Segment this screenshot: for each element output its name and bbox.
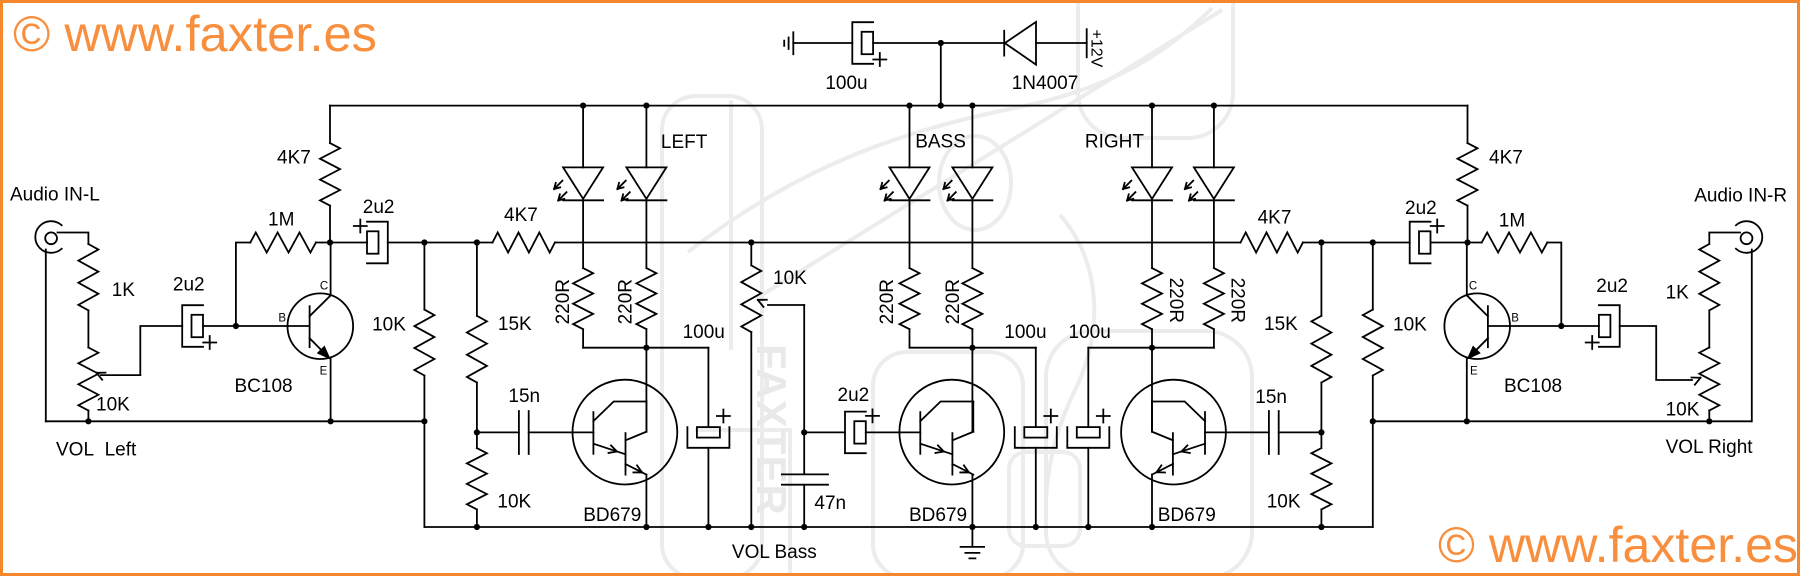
LED D BASS1 xyxy=(890,167,930,200)
wire 220R down LEFT2 xyxy=(645,329,647,348)
wire 1M to node xyxy=(316,242,330,244)
svg-text:E: E xyxy=(320,365,328,377)
svg-text:100u: 100u xyxy=(683,322,725,343)
terminal +12V xyxy=(1086,29,1088,57)
junction left rail / 10K xyxy=(421,418,427,424)
svg-text:100u: 100u xyxy=(1069,322,1111,343)
svg-text:1K: 1K xyxy=(112,280,136,301)
resistor 1M left xyxy=(250,233,316,253)
junction mid rail VOL Bass xyxy=(748,239,754,245)
svg-text:BD679: BD679 xyxy=(909,505,967,526)
node power junction xyxy=(938,40,944,46)
wire right rail xyxy=(1373,420,1751,422)
svg-text:LEFT: LEFT xyxy=(661,132,708,153)
svg-text:220R: 220R xyxy=(943,279,964,324)
capacitor 2u2 left collector node xyxy=(367,222,388,264)
wire base node to transistor xyxy=(236,325,310,327)
capacitor 2u2 right input xyxy=(1599,305,1620,347)
wire LED to 220R RIGHT2 xyxy=(1213,200,1215,268)
capacitor 100u right coupling B xyxy=(1087,348,1089,427)
junction top rail x=972.4 xyxy=(969,103,975,109)
resistor 220R BASS1 xyxy=(900,268,920,329)
transistor Q2 BD679 left xyxy=(573,380,678,485)
svg-text:RIGHT: RIGHT xyxy=(1085,132,1145,153)
resistor 4K7 right vertical xyxy=(1458,143,1478,206)
svg-text:10K: 10K xyxy=(497,492,531,513)
resistor 15K left xyxy=(467,243,487,433)
wire LED to 220R BASS1 xyxy=(909,200,911,268)
wire 220R down RIGHT1 xyxy=(1151,329,1153,348)
LED D BASS2 xyxy=(952,167,992,200)
svg-text:B: B xyxy=(1511,313,1519,325)
svg-text:220R: 220R xyxy=(553,279,574,324)
resistor 220R LEFT2 xyxy=(636,268,656,329)
svg-text:2u2: 2u2 xyxy=(363,197,395,218)
svg-text:15n: 15n xyxy=(1255,387,1287,408)
node collector left xyxy=(327,239,333,245)
wire 15n to node right xyxy=(1279,431,1322,433)
capacitor 2u2 right collector node xyxy=(1410,222,1431,264)
wire collector BD679 left xyxy=(645,348,647,432)
wire C2u2 to base node xyxy=(203,325,236,327)
wire bass collector node to C100u xyxy=(972,347,1035,349)
junction 15K/10K/15n right xyxy=(1318,429,1324,435)
svg-text:10K: 10K xyxy=(1393,315,1427,336)
svg-text:VOL Bass: VOL Bass xyxy=(732,542,817,563)
svg-text:10K: 10K xyxy=(773,268,807,289)
wire BD679 base to 15n right xyxy=(1205,431,1269,433)
ground symbol bass emitter xyxy=(961,527,985,558)
wire power node down to top rail xyxy=(940,43,942,106)
resistor 1K left xyxy=(78,244,98,310)
wire emitter Q1 to left rail xyxy=(330,358,332,422)
junction collector node RIGHT xyxy=(1149,345,1155,351)
svg-text:B: B xyxy=(278,313,286,325)
svg-text:1M: 1M xyxy=(268,210,294,231)
svg-text:100u: 100u xyxy=(825,73,867,94)
junction pot/rail right xyxy=(1706,418,1712,424)
wire top supply rail xyxy=(330,105,1468,107)
svg-text:1N4007: 1N4007 xyxy=(1012,73,1079,94)
svg-text:1M: 1M xyxy=(1499,211,1525,232)
resistor 220R RIGHT1 xyxy=(1142,268,1162,329)
wire LED to 220R LEFT1 xyxy=(582,200,584,268)
svg-text:220R: 220R xyxy=(1165,278,1186,323)
wire ground to C 100u xyxy=(793,42,852,44)
wire base right xyxy=(1488,325,1561,327)
wire D1 anode to +12V terminal xyxy=(1036,42,1087,44)
capacitor 2u2 bass xyxy=(845,412,866,454)
junction bottom rail emitter left xyxy=(643,524,649,530)
svg-text:47n: 47n xyxy=(814,493,846,514)
junction emitter/rail right xyxy=(1464,418,1470,424)
wire jack to R 1K xyxy=(58,233,89,245)
svg-text:VOL Right: VOL Right xyxy=(1666,437,1754,458)
junction mid rail 15K right xyxy=(1318,239,1324,245)
potentiometer VOL Bass 10K xyxy=(741,243,761,333)
LED DLEFT2 xyxy=(626,167,666,200)
svg-text:10K: 10K xyxy=(372,315,406,336)
potentiometer VOL Left 10K xyxy=(78,348,98,411)
wire pot bottom to rail right xyxy=(1708,411,1710,422)
wire rail to LED2 LEFT xyxy=(645,106,647,168)
wire mid rail to 15K right xyxy=(1303,242,1322,244)
wire top rail corner down to 4K7 right xyxy=(1467,106,1469,144)
wire mid rail to 15K xyxy=(424,242,477,244)
resistor 10K right bias xyxy=(1363,243,1383,422)
resistor 10K left bias xyxy=(414,243,434,422)
wire collector Q1 xyxy=(330,243,332,296)
wire jack ground down xyxy=(45,250,47,422)
junction mid rail 10K left xyxy=(421,239,427,245)
capacitor 47n xyxy=(782,432,828,527)
svg-text:15K: 15K xyxy=(498,314,532,335)
svg-text:BC108: BC108 xyxy=(1504,376,1562,397)
svg-text:FAXTER: FAXTER xyxy=(748,344,795,516)
wire rail to LED BASS1 xyxy=(909,106,911,168)
wire LED to 220R BASS2 xyxy=(971,200,973,268)
junction bottom rail 100u bass A xyxy=(1033,524,1039,530)
svg-text:2u2: 2u2 xyxy=(1405,198,1437,219)
wire C2u2 to node right xyxy=(1431,242,1468,244)
svg-text:4K7: 4K7 xyxy=(277,148,311,169)
junction bottom rail 47n xyxy=(801,524,807,530)
wire base node to C2u2 right input xyxy=(1561,325,1599,327)
wire C100u to node xyxy=(873,42,941,44)
wire 100u B to RIGHT collector node xyxy=(1088,347,1152,349)
wire 220R down BASS1 xyxy=(909,329,911,348)
wire LED to 220R RIGHT1 xyxy=(1151,200,1153,268)
capacitor 100u (power smoothing) xyxy=(852,22,873,64)
wire emitter BD679 bass to rail xyxy=(971,475,973,527)
svg-text:100u: 100u xyxy=(1004,322,1046,343)
wire C2u2 to mid rail xyxy=(388,242,425,244)
wire collector node to C100u left xyxy=(646,347,708,349)
svg-text:BD679: BD679 xyxy=(1158,505,1216,526)
wire 15n to BD679 base xyxy=(529,431,594,433)
svg-text:15n: 15n xyxy=(508,386,540,407)
ground (power supply negative) xyxy=(784,32,793,54)
junction bottom rail emitter bass xyxy=(969,524,975,530)
decorative watermark (not labelled further) xyxy=(662,0,1252,576)
node collector right xyxy=(1464,239,1470,245)
junction top rail x=1152.0 xyxy=(1149,103,1155,109)
wire bottom rail xyxy=(424,526,1372,528)
svg-text:2u2: 2u2 xyxy=(1596,276,1628,297)
transistor Q1 BC108 xyxy=(288,293,354,359)
svg-text:220R: 220R xyxy=(615,279,636,324)
svg-text:10K: 10K xyxy=(1267,492,1301,513)
resistor 220R BASS2 xyxy=(962,268,982,329)
svg-text:BASS: BASS xyxy=(915,132,966,153)
wire 220R down BASS2 xyxy=(971,329,973,348)
junction emitter/rail left xyxy=(328,418,334,424)
resistor 4K7 left vertical xyxy=(320,143,340,206)
wire wiper to C 2u2 xyxy=(140,326,182,375)
wire emitter BD679 left to bottom rail xyxy=(645,475,647,527)
svg-text:4K7: 4K7 xyxy=(1258,208,1292,229)
svg-text:2u2: 2u2 xyxy=(173,275,205,296)
wire 4K7 to node xyxy=(329,206,331,243)
junction top rail x=583.1 xyxy=(580,103,586,109)
junction top rail x=909.5 xyxy=(906,103,912,109)
wire rail to LED BASS2 xyxy=(971,106,973,168)
transistor Q4 BD679 right (mirrored) xyxy=(1121,380,1226,485)
svg-text:C: C xyxy=(1469,280,1477,292)
junction bottom rail 100u B xyxy=(1085,524,1091,530)
junction pot/rail left xyxy=(85,418,91,424)
svg-text:Audio IN-L: Audio IN-L xyxy=(10,185,100,206)
svg-text:Audio IN-R: Audio IN-R xyxy=(1694,186,1787,207)
resistor 220R LEFT1 xyxy=(573,268,593,329)
svg-text:© www.faxter.es: © www.faxter.es xyxy=(13,6,377,62)
diode 1N4007 xyxy=(1004,22,1036,65)
svg-text:220R: 220R xyxy=(877,279,898,324)
potentiometer VOL Right 10K xyxy=(1699,348,1719,411)
wire LED to 220R LEFT2 xyxy=(645,200,647,268)
wire mid rail to 4K7 xyxy=(477,242,493,244)
svg-text:4K7: 4K7 xyxy=(504,205,538,226)
wire emitter right to rail xyxy=(1466,358,1468,422)
transistor Q3 BD679 bass xyxy=(899,380,1004,485)
wire 220R joiner RIGHT xyxy=(1152,347,1214,349)
wire C2u2 to BD679 base xyxy=(866,431,921,433)
resistor 15K right xyxy=(1311,243,1331,433)
resistor 4K7 right horizontal xyxy=(751,233,1303,253)
wire left rail down to bottom rail xyxy=(423,421,425,527)
wire 220R down LEFT1 xyxy=(582,329,584,348)
wire 220R joiner BASS xyxy=(910,347,973,349)
junction collector node LEFT xyxy=(643,345,649,351)
svg-text:VOL Left: VOL Left xyxy=(56,440,137,461)
wire base node up to R 1M xyxy=(236,243,250,327)
wire mid rail left-of-center xyxy=(555,242,751,244)
junction mid rail 10K right xyxy=(1370,239,1376,245)
LED D RIGHT1 xyxy=(1132,167,1172,200)
wire node to C2u2 xyxy=(330,242,367,244)
wire rail to LED1 LEFT xyxy=(582,106,584,168)
wire 1K to pot xyxy=(87,310,89,347)
resistor 1M right xyxy=(1468,233,1548,253)
wire jack to R 1K right xyxy=(1709,233,1740,245)
wire VOL Bass bottom to rail xyxy=(750,332,752,527)
wire bass node to C2u2 xyxy=(804,431,845,433)
node base left xyxy=(233,323,239,329)
transistor Q5 BC108 right (mirrored) xyxy=(1444,293,1510,359)
junction top rail x=1213.9 xyxy=(1211,103,1217,109)
junction bottom rail 10K left xyxy=(474,524,480,530)
resistor 10K left lower xyxy=(467,432,487,527)
capacitor 15n right xyxy=(1269,411,1279,454)
svg-text:BC108: BC108 xyxy=(235,376,293,397)
wire mid rail to 10K right xyxy=(1321,242,1372,244)
capacitor 2u2 input left xyxy=(182,305,203,347)
wire rail to LED RIGHT1 xyxy=(1151,106,1153,168)
wire collector BD679 bass xyxy=(971,348,973,432)
junction bottom rail VOL Bass xyxy=(748,524,754,530)
junction 15K/10K/15n left xyxy=(474,429,480,435)
wire collector right xyxy=(1466,243,1468,296)
svg-text:C: C xyxy=(320,280,328,292)
junction top rail x=940.8 xyxy=(938,103,944,109)
capacitor 100u left output xyxy=(707,348,709,427)
capacitor 100u bass output A xyxy=(1035,348,1037,427)
wire rail to LED RIGHT2 xyxy=(1213,106,1215,168)
svg-text:220R: 220R xyxy=(1227,278,1248,323)
junction bottom rail emitter right xyxy=(1149,524,1155,530)
svg-text:10K: 10K xyxy=(1666,400,1700,421)
wire mid rail to C2u2 right xyxy=(1373,242,1410,244)
wire jack ground down right xyxy=(1751,250,1753,422)
junction mid rail 15K left xyxy=(474,239,480,245)
svg-text:+12V: +12V xyxy=(1088,30,1105,68)
wire top rail corner down to R 4K7 xyxy=(329,106,331,144)
wire pot top to 1K right xyxy=(1708,310,1710,347)
junction right rail / 10K xyxy=(1370,418,1376,424)
wire 1M to base node right xyxy=(1547,243,1561,327)
connector jack Audio IN-L xyxy=(35,221,61,253)
svg-text:E: E xyxy=(1470,365,1478,377)
node bass input xyxy=(801,429,807,435)
resistor 4K7 left horizontal xyxy=(493,233,555,253)
resistor 1K right xyxy=(1699,244,1719,310)
junction collector node BASS xyxy=(969,345,975,351)
wire C2u2 to wiper right xyxy=(1620,326,1701,385)
LED D RIGHT2 xyxy=(1194,167,1234,200)
junction bottom rail C100u left xyxy=(705,524,711,530)
capacitor 15n left xyxy=(519,411,529,454)
junction top rail x=646.4 xyxy=(643,103,649,109)
svg-text:1K: 1K xyxy=(1666,283,1690,304)
resistor 10K right lower xyxy=(1311,432,1331,527)
wire 220R down RIGHT2 xyxy=(1213,329,1215,348)
node base right xyxy=(1558,323,1564,329)
svg-text:BD679: BD679 xyxy=(583,505,641,526)
svg-text:2u2: 2u2 xyxy=(838,385,870,406)
svg-text:15K: 15K xyxy=(1264,314,1298,335)
wire emitter BD679 right to rail xyxy=(1151,475,1153,527)
wire 4K7 to node right xyxy=(1467,206,1469,243)
svg-text:© www.faxter.es: © www.faxter.es xyxy=(1438,517,1798,573)
junction bottom rail 10K right xyxy=(1318,524,1324,530)
svg-text:4K7: 4K7 xyxy=(1489,148,1523,169)
connector jack Audio IN-R xyxy=(1736,221,1762,253)
wire 15n left side xyxy=(477,431,519,433)
wire collector BD679 right xyxy=(1151,348,1153,432)
wire pot bottom to left rail xyxy=(87,411,89,422)
wire wiper down to bass node xyxy=(803,305,805,432)
wire left rail xyxy=(46,420,425,422)
wire right rail up from bottom rail xyxy=(1372,421,1374,527)
LED DLEFT1 xyxy=(563,167,603,200)
wire 220R joiner LEFT xyxy=(583,347,646,349)
svg-text:10K: 10K xyxy=(96,395,130,416)
wire node to D1 cathode xyxy=(941,42,1004,44)
resistor 220R RIGHT2 xyxy=(1204,268,1224,329)
